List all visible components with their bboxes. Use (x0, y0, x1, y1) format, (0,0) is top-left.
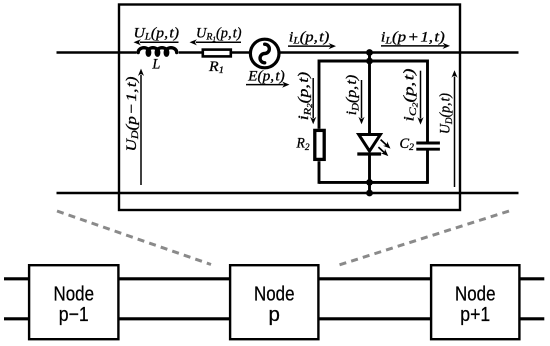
svg-text:iL(p + 1, t): iL(p + 1, t) (381, 29, 445, 46)
node box p (230, 265, 318, 339)
arrow E (246, 82, 290, 88)
node box p+1 (431, 265, 519, 339)
arrow i_L (288, 43, 336, 49)
wire bottom line (57, 192, 519, 195)
source sine symbol (260, 44, 269, 63)
svg-text:R2: R2 (296, 136, 310, 153)
diode LED D (357, 135, 381, 155)
svg-text:p−1: p−1 (59, 303, 89, 326)
svg-text:UR1(p, t): UR1(p, t) (196, 25, 242, 43)
svg-text:R1: R1 (208, 59, 224, 76)
svg-text:p: p (269, 303, 280, 326)
dashed zoom line left (57, 211, 211, 265)
LED arrow 1 (381, 140, 393, 151)
bus lines upper (4, 277, 544, 280)
arrow i_R2 (310, 78, 316, 124)
LED arrow 2 (378, 147, 390, 158)
dashed zoom line right (339, 211, 509, 265)
svg-text:UL(p, t): UL(p, t) (134, 25, 180, 42)
node box p-1 (29, 265, 118, 339)
node dot bottom wire (366, 190, 373, 197)
node dot lower rail (366, 179, 373, 186)
node dot top wire (366, 49, 373, 56)
resistor R2 (315, 130, 324, 159)
svg-text:iD(p, t): iD(p, t) (344, 75, 361, 116)
arrow U_D(p-1) (138, 69, 144, 185)
arrow U_D(p) (451, 70, 457, 187)
outer box (119, 5, 460, 211)
svg-text:p+1: p+1 (460, 303, 490, 326)
svg-text:E(p, t): E(p, t) (247, 68, 285, 84)
wire top line (57, 51, 519, 54)
arrow i_D (358, 80, 364, 124)
arrow i_L(p+1) (381, 43, 450, 49)
resistor R1 (203, 50, 231, 57)
svg-text:UD(p, t): UD(p, t) (438, 93, 455, 134)
svg-text:iC2(p, t): iC2(p, t) (402, 68, 420, 121)
label Node p+1 (455, 283, 496, 326)
arrow U_L (134, 39, 179, 45)
node dot upper rail (366, 58, 373, 65)
svg-text:L: L (151, 57, 160, 73)
label Node p-1 (54, 283, 95, 326)
svg-text:C2: C2 (400, 136, 415, 153)
arrow U_R1 (190, 39, 242, 45)
capacitor C2 (416, 143, 440, 149)
bus lines lower (4, 317, 544, 320)
inductor L (138, 48, 177, 55)
source E circle (250, 39, 279, 68)
parallel network wires (319, 53, 428, 194)
svg-text:UD(p − 1, t): UD(p − 1, t) (124, 76, 141, 151)
label Node p (254, 283, 295, 326)
svg-text:iR2(p, t): iR2(p, t) (296, 72, 314, 121)
svg-text:iL(p, t): iL(p, t) (289, 29, 330, 46)
arrow i_C2 (417, 71, 423, 125)
